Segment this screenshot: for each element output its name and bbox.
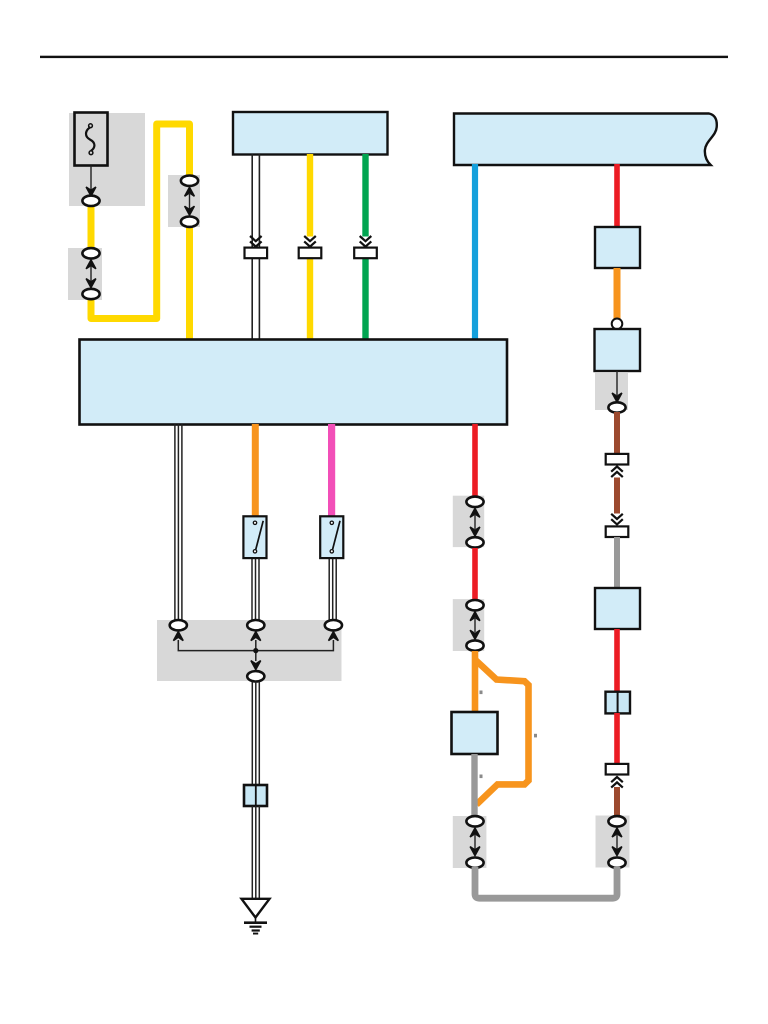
arrow up bottom left pair	[470, 828, 480, 837]
fusible link element squiggle	[86, 127, 94, 151]
arrow up pair B	[470, 612, 480, 621]
gray wire to box3r	[614, 537, 620, 589]
gray ground bus U-shape bottom	[475, 867, 617, 898]
shield ground box4	[452, 712, 498, 754]
inline connector rect 1	[606, 454, 629, 465]
ground stem	[255, 918, 257, 923]
arrow down into riser lower oval	[185, 206, 195, 215]
lead from fusible link to connector	[90, 166, 92, 191]
arrow down pair B	[470, 630, 480, 639]
wire: yellow from fusible link oval down	[88, 205, 95, 250]
wire: yellow loop bottom-left up and over to right riser	[91, 124, 190, 319]
arrow down into oval under box2	[612, 393, 622, 402]
chevron down on green wire	[360, 236, 372, 247]
wire: yellow from right riser connector to ECU	[186, 225, 193, 340]
small two-pane splice box	[606, 692, 631, 714]
red wire box3r to splice box	[614, 629, 620, 692]
arrow down bottom right pair	[612, 847, 622, 856]
connector oval bottom right upper	[608, 816, 625, 826]
chevron down on yellow wire	[304, 236, 316, 247]
chevron up under rect 1	[611, 467, 623, 478]
connector oval pair A lower	[466, 537, 483, 547]
red wire splice box to inline connector	[614, 713, 620, 765]
arrow down junction output	[251, 661, 261, 670]
shield box5	[244, 785, 267, 806]
arrow up pair A	[470, 508, 480, 517]
circle terminal above box2	[612, 319, 623, 330]
orange wire box1 to noise filter circle	[614, 268, 621, 319]
gray wire box4 to bottom left connector pair	[471, 754, 477, 817]
blue wire from top right box to ECU	[472, 164, 478, 340]
connector oval below fusible link	[82, 196, 99, 206]
arrow up junction middle	[251, 632, 261, 641]
brown wire to bottom right connector pair	[614, 787, 620, 817]
inline connector rect on green wire	[354, 248, 377, 259]
junction oval right	[325, 620, 342, 630]
connector oval bottom left upper	[466, 816, 483, 826]
chevron down on white wire	[250, 236, 262, 247]
junction dot	[253, 648, 258, 653]
red wire connector pair A to B	[472, 548, 478, 601]
connector oval bottom right lower	[608, 858, 625, 868]
gray panel bottom right connector pair	[596, 816, 630, 868]
wire link between left pair ovals	[90, 266, 92, 281]
gray panel connector pair A	[453, 496, 484, 547]
shield box5 center conductor	[255, 785, 257, 806]
connector oval bottom left lower	[466, 858, 483, 868]
arrow up junction left	[173, 632, 183, 641]
shielded triple line below switch s2	[329, 558, 336, 621]
gray panel: junction block top-left	[69, 113, 145, 206]
inline connector rect on yellow wire	[299, 248, 322, 259]
inline connector rect on white wire	[245, 248, 268, 259]
brown wire oval to inline connector	[614, 412, 620, 455]
arrow down into lower oval	[86, 279, 96, 288]
header rule	[40, 56, 728, 58]
connector oval riser pair lower	[181, 217, 198, 227]
tiny pin label 1	[480, 691, 483, 695]
yellow wire from relay box to ECU	[307, 154, 313, 237]
connector oval pair B lower	[466, 640, 483, 650]
tiny pin label 3	[480, 775, 483, 779]
junction center drop wire	[255, 640, 257, 661]
ECU main box	[80, 340, 508, 425]
junction output oval	[247, 671, 264, 681]
lead from box2 to oval	[616, 371, 618, 395]
tiny pin label 2	[534, 734, 537, 738]
junction oval middle	[247, 620, 264, 630]
arrow into connector	[86, 187, 96, 196]
connector oval pair A upper	[466, 497, 483, 507]
gray panel bottom left connector pair	[453, 816, 487, 868]
wire link bottom right pair	[616, 834, 618, 849]
arrow up bottom right pair	[612, 828, 622, 837]
top right box with torn edge	[454, 114, 717, 166]
orange shield drain loop around box4	[476, 660, 529, 805]
arrow up into riser upper oval	[185, 187, 195, 196]
arrow down bottom left pair	[470, 847, 480, 856]
red wire from top right box down to box1	[614, 164, 620, 228]
orange wire ECU to switch box s1	[252, 424, 259, 518]
ground triangle	[242, 899, 270, 918]
gray panel: connector pair below fusible link	[68, 248, 102, 300]
arrow down pair A	[470, 527, 480, 536]
relay box2 right column	[595, 329, 641, 371]
gray panel under box2	[595, 373, 628, 410]
gray panel: connector pair on right yellow riser	[168, 175, 200, 227]
connector oval pair B upper	[466, 600, 483, 610]
inline connector rect 3	[606, 764, 629, 775]
relay box1 right column	[595, 227, 640, 268]
shielded triple line below switch s1	[252, 558, 259, 621]
wire link bottom left pair	[474, 834, 476, 849]
orange wire connector pair B to shield box4	[472, 651, 479, 713]
arrow up into upper oval	[86, 260, 96, 269]
connector oval left pair upper	[82, 248, 99, 258]
junction bus wire	[178, 640, 333, 651]
top middle relay box	[233, 112, 388, 155]
red wire ECU to connector pair A	[472, 424, 478, 498]
pink wire ECU to switch box s2	[328, 424, 335, 518]
inline connector rect 2	[606, 526, 629, 537]
connector oval under box2	[608, 402, 625, 412]
switch box s1	[243, 516, 266, 558]
wire link between riser pair ovals	[189, 193, 191, 209]
connector oval riser pair upper	[181, 176, 198, 186]
arrow up junction right	[329, 632, 339, 641]
shielded triple line box5 to ground	[252, 806, 259, 898]
sensor box right column	[595, 588, 640, 629]
junction oval left	[170, 620, 187, 630]
fusible link AM2 box	[75, 113, 108, 166]
wire link pair A	[474, 514, 476, 529]
chevron up under rect 3	[611, 777, 623, 788]
brown wire between chevrons	[614, 478, 620, 514]
shielded triple line left from ECU to central joint	[175, 424, 182, 621]
connector oval left pair lower	[82, 289, 99, 299]
switch box s2	[320, 516, 343, 558]
green wire from relay box to ECU	[362, 154, 368, 237]
central gray junction box	[157, 620, 342, 681]
wire link pair B	[474, 617, 476, 632]
shielded triple line central oval to shield box5	[252, 682, 259, 786]
splice box divider	[617, 692, 619, 713]
gray panel connector pair B	[453, 599, 484, 651]
chevron down above rect 2	[611, 514, 623, 525]
white double-line wire from relay box to ECU	[251, 154, 253, 340]
